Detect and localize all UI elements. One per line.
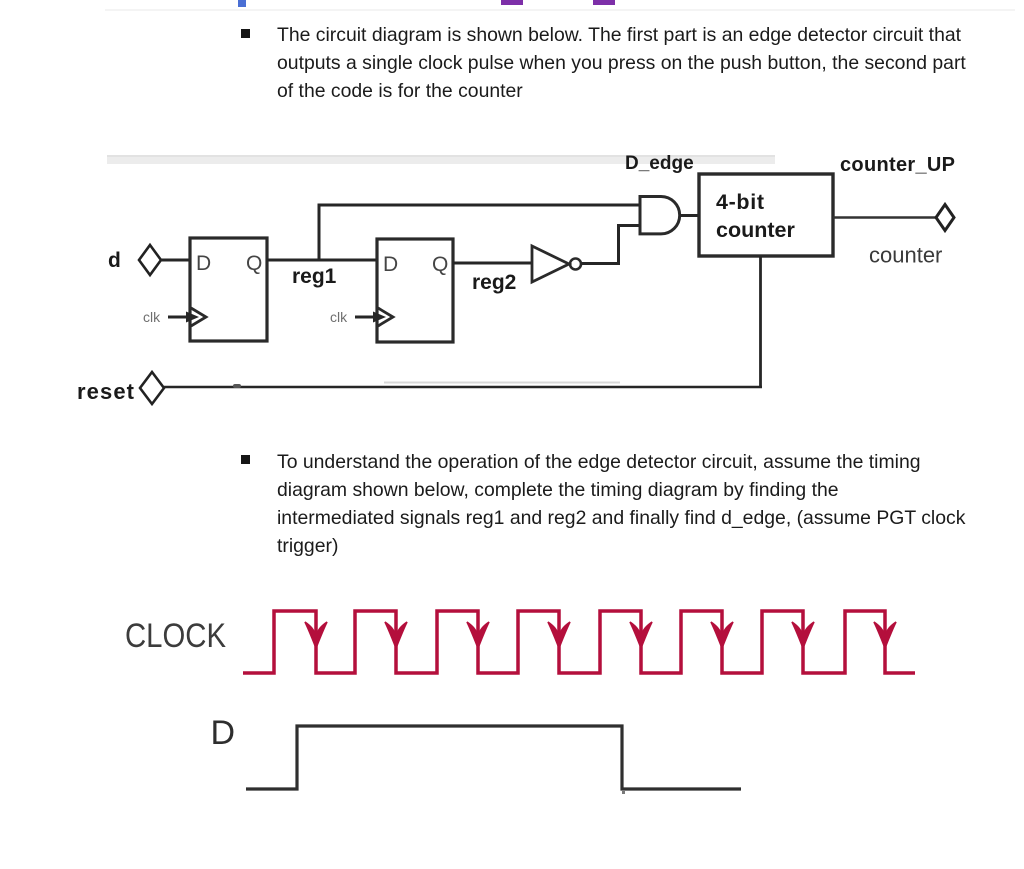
4-bit counter box — [699, 174, 833, 256]
AND gate — [640, 197, 680, 234]
svg-text:Q: Q — [246, 252, 262, 275]
clock falling-edge arrow at x=478 — [467, 622, 489, 648]
svg-text:counter: counter — [869, 243, 942, 268]
cut-off glyph artifacts at very top — [238, 0, 246, 7]
port diamond reset — [140, 372, 164, 404]
clock edge triangle reg1 — [191, 308, 206, 326]
svg-text:4-bit: 4-bit — [716, 190, 764, 214]
clk arrow reg2 — [355, 316, 375, 319]
svg-text:counter_UP: counter_UP — [840, 154, 955, 176]
svg-text:d: d — [108, 249, 121, 272]
D waveform — [246, 726, 741, 789]
clock falling-edge arrow at x=803 — [792, 622, 814, 648]
paragraph 2 — [277, 448, 965, 560]
wire counter to output diamond — [833, 216, 936, 219]
svg-text:clk: clk — [143, 309, 161, 325]
svg-text:D: D — [196, 252, 211, 275]
wire reg1 Q to reg2 D — [267, 259, 378, 262]
clock edge triangle reg2 — [378, 308, 393, 326]
svg-text:Q: Q — [432, 253, 448, 276]
clock falling-edge arrow at x=641 — [630, 622, 652, 648]
wire top horizontal to AND gate — [318, 204, 641, 207]
scan artifact gray strip at top of circuit image — [107, 155, 775, 164]
wire riser from reg1 Q up — [318, 204, 321, 261]
svg-text:D: D — [211, 714, 236, 752]
inverter bubble — [570, 259, 581, 270]
clock falling-edge arrow at x=316 — [305, 622, 327, 648]
svg-text:counter: counter — [716, 218, 795, 242]
CLOCK waveform — [243, 611, 915, 673]
paragraph 2 bullet — [241, 455, 250, 464]
svg-text:reg1: reg1 — [292, 265, 337, 288]
clk arrow reg1 — [168, 316, 188, 319]
port diamond counter output — [936, 205, 954, 231]
wire jog to AND lower input — [617, 224, 640, 227]
wire inverter to jog — [581, 262, 620, 265]
wire d to reg1 D — [161, 259, 191, 262]
scan artifact gray line above reset wire — [384, 382, 620, 384]
clock falling-edge arrow at x=722 — [711, 622, 733, 648]
artifact dot — [622, 791, 625, 794]
scan artifact blob on reset wire — [233, 384, 241, 388]
clock falling-edge arrow at x=559 — [548, 622, 570, 648]
flip-flop reg2 box — [377, 239, 453, 342]
wire reg2 Q to inverter — [453, 262, 533, 265]
clock falling-edge arrow at x=396 — [385, 622, 407, 648]
svg-text:reset: reset — [77, 379, 135, 404]
port diamond d — [139, 245, 161, 275]
wire jog vertical — [617, 226, 620, 266]
svg-text:D_edge: D_edge — [625, 153, 694, 174]
svg-text:clk: clk — [330, 309, 348, 325]
inverter U1 triangle — [532, 246, 569, 282]
paragraph 1 — [277, 21, 966, 105]
flip-flop reg1 box — [190, 238, 267, 341]
clock falling-edge arrow at x=885 — [874, 622, 896, 648]
wire counter bottom down — [759, 256, 762, 388]
paragraph 1 bullet — [241, 29, 250, 38]
svg-text:CLOCK: CLOCK — [125, 617, 226, 655]
svg-text:D: D — [383, 253, 398, 276]
wire reset to counter — [164, 386, 762, 389]
svg-text:reg2: reg2 — [472, 271, 516, 294]
wire AND output to counter — [680, 214, 700, 217]
